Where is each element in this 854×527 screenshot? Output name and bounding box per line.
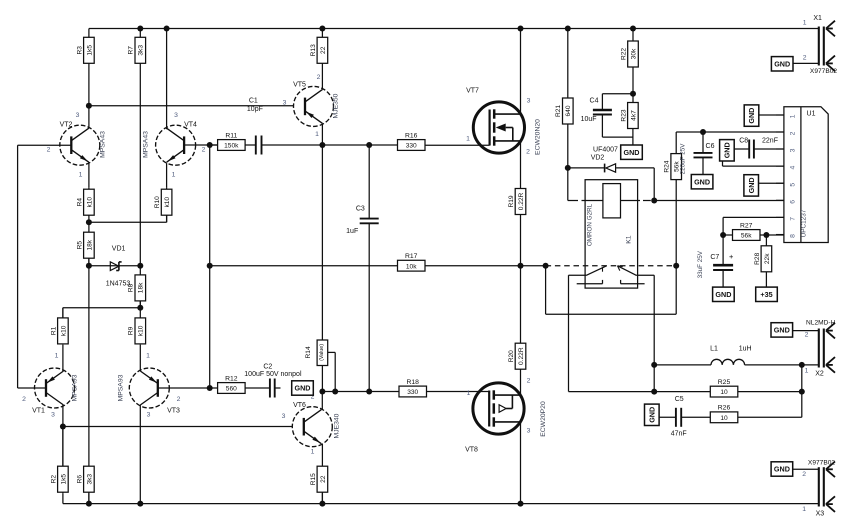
wire R5 drop to VD1	[88, 258, 90, 266]
junction VT1 collector / VT6 base line	[60, 424, 66, 430]
resistor R2	[50, 427, 68, 494]
ground X2 pin2	[771, 323, 793, 337]
capacitor C3	[346, 206, 379, 235]
junction R5 / VD1 anode	[86, 263, 92, 269]
junction VT3 / -rail	[137, 501, 143, 507]
junction R8 / R9 / R1 bias node	[137, 305, 143, 311]
resistor R16	[398, 132, 426, 150]
svg-text:22nF: 22nF	[762, 138, 778, 145]
wire C6 from pin2 line	[702, 132, 704, 153]
wire VT1 collector down	[62, 405, 64, 466]
connector X2 NL2MD-H	[805, 320, 836, 378]
svg-text:VD2: VD2	[591, 154, 605, 161]
wire R6 to rail	[88, 493, 90, 503]
resistor R15	[310, 466, 328, 504]
resistor R28	[754, 246, 772, 272]
wire U1 pin4 to GND	[723, 165, 784, 167]
junction R14 wiper	[332, 389, 338, 395]
svg-text:GND: GND	[715, 290, 731, 299]
U1 pin 7	[776, 216, 784, 218]
wire R28 drop	[765, 235, 767, 246]
svg-text:22: 22	[320, 46, 327, 54]
resistor R24	[664, 150, 682, 180]
wire L1 row	[654, 364, 711, 366]
svg-text:+35: +35	[760, 290, 772, 299]
svg-text:VT8: VT8	[465, 447, 478, 454]
svg-text:640: 640	[565, 105, 572, 116]
svg-text:3k3: 3k3	[86, 474, 93, 485]
svg-text:R22: R22	[620, 48, 627, 60]
svg-text:VT3: VT3	[167, 408, 180, 415]
zener diode VD1 1N4753	[106, 246, 131, 288]
svg-text:3: 3	[283, 100, 287, 107]
svg-text:1k5: 1k5	[86, 45, 93, 56]
ground C7	[713, 287, 735, 301]
svg-text:1uF: 1uF	[346, 228, 358, 235]
wire outer contact loop	[545, 266, 547, 315]
wire relay contact common dashed	[546, 265, 677, 267]
svg-text:R15: R15	[310, 473, 317, 485]
wire R17 row	[210, 265, 398, 267]
wire R2 to rail	[62, 493, 64, 503]
svg-text:30k: 30k	[630, 48, 637, 59]
ground C2	[292, 381, 314, 395]
U1 pin 2	[776, 131, 784, 133]
svg-text:1: 1	[55, 353, 59, 360]
wire R26 row	[659, 416, 676, 418]
svg-text:560: 560	[226, 386, 237, 393]
svg-text:1: 1	[466, 136, 470, 143]
wire C7 drop	[722, 235, 724, 265]
wire VT3 base to feedback node	[158, 387, 210, 389]
svg-text:8: 8	[790, 234, 797, 238]
svg-text:VT1: VT1	[32, 408, 45, 415]
wire R14 to emitter row	[321, 366, 323, 392]
svg-text:R1: R1	[50, 326, 57, 335]
svg-text:1k5: 1k5	[60, 474, 67, 485]
junction R22 / R23 / C4	[630, 91, 636, 97]
U1 pin 4	[776, 165, 784, 167]
junction VD2 cathode / coil line	[651, 198, 657, 204]
U1 pin 1	[776, 114, 784, 116]
junction VT4 collector / +rail	[164, 26, 170, 32]
resistor R5	[76, 222, 94, 265]
wire VT2 collector	[88, 106, 90, 128]
svg-text:MPSA43: MPSA43	[143, 131, 150, 158]
svg-text:VT5: VT5	[293, 82, 306, 89]
svg-text:R24: R24	[664, 160, 671, 172]
resistor R26	[710, 405, 738, 423]
wire R21 column	[567, 29, 569, 99]
capacitor C6	[680, 143, 715, 175]
svg-text:2: 2	[317, 74, 321, 81]
wire VT7 drain to top rail	[520, 29, 522, 114]
junction VT5 emitter node	[319, 142, 325, 148]
svg-text:0.22R: 0.22R	[518, 192, 525, 210]
svg-text:C4: C4	[590, 97, 599, 104]
resistor R3	[76, 29, 94, 106]
resistor R18	[399, 379, 427, 397]
svg-text:R25: R25	[718, 379, 731, 386]
svg-text:1: 1	[803, 20, 807, 27]
svg-text:22: 22	[320, 475, 327, 483]
svg-text:k10: k10	[60, 325, 67, 336]
wire first-stage to VAS line	[89, 105, 294, 107]
MOSFET VT7 ECW20N20	[466, 88, 541, 156]
svg-text:MJE340: MJE340	[334, 413, 341, 438]
ground C5	[645, 404, 660, 425]
wire R8 bottom to node	[139, 301, 141, 308]
svg-text:R28: R28	[754, 252, 761, 264]
capacitor C4 polarized	[581, 97, 612, 123]
svg-text:C3: C3	[356, 206, 365, 213]
wire VT6 emitter to R15	[321, 444, 323, 466]
junction R13 / +rail	[319, 26, 325, 32]
junction R4-R10 emitter node	[86, 219, 92, 225]
wire U1 pin5 to GND	[758, 182, 784, 184]
junction VT7 drain / +rail	[518, 26, 524, 32]
connector X3 X977B02	[802, 459, 835, 517]
wire X3 gnd	[792, 468, 818, 470]
svg-text:2: 2	[803, 55, 807, 62]
ground C4/R23	[621, 145, 643, 159]
diode VD2 UF4007	[591, 146, 618, 172]
wire feedback vertical	[209, 145, 211, 388]
svg-text:GND: GND	[295, 384, 311, 393]
resistor R4	[76, 188, 94, 223]
wire VT3 collector to bottom rail	[139, 405, 141, 504]
wire bias row y307 to R1	[63, 307, 140, 309]
svg-text:X977B02: X977B02	[808, 459, 835, 466]
capacitor C5	[671, 396, 687, 438]
svg-text:R16: R16	[405, 132, 418, 139]
svg-text:5: 5	[790, 183, 797, 187]
resistor R13	[310, 37, 328, 63]
ground X3 pin2	[771, 462, 793, 476]
svg-text:3: 3	[790, 148, 797, 152]
svg-text:U1: U1	[807, 111, 816, 118]
svg-text:10pF: 10pF	[247, 106, 263, 113]
svg-text:R11: R11	[225, 132, 237, 139]
svg-text:ECW20N20: ECW20N20	[535, 119, 542, 155]
svg-text:3: 3	[282, 413, 286, 420]
wire U1 pin7 corner	[723, 216, 784, 218]
svg-text:1: 1	[802, 506, 806, 513]
svg-text:330: 330	[406, 143, 417, 150]
wire VD1 node down to R6	[88, 266, 90, 466]
wire VT4 base to node	[184, 144, 218, 146]
svg-text:C5: C5	[675, 396, 684, 403]
wire bottom -rail	[63, 503, 819, 505]
ground X1 pin2	[771, 57, 793, 71]
svg-text:3: 3	[147, 412, 151, 419]
svg-text:1: 1	[467, 390, 471, 397]
junction R3 / VT2 collector node	[86, 103, 92, 109]
junction contact loop left	[543, 263, 549, 269]
svg-text:C6: C6	[706, 143, 715, 150]
resistor R19	[508, 189, 526, 215]
svg-text:OMRON G2RL: OMRON G2RL	[587, 203, 594, 246]
wire R9 to VT3 emitter	[139, 345, 141, 371]
junction R15 / -rail	[319, 501, 325, 507]
svg-text:10: 10	[720, 389, 728, 396]
svg-text:3: 3	[51, 412, 55, 419]
svg-text:MPSA43: MPSA43	[100, 131, 107, 158]
junction output node / R17	[518, 263, 524, 269]
wire emitter row y222	[89, 221, 167, 223]
svg-text:1: 1	[311, 449, 315, 456]
wire coil to U1 pin6	[621, 200, 641, 202]
wire R24 down to contact node	[675, 180, 677, 266]
svg-text:MPSA93: MPSA93	[72, 374, 79, 401]
svg-text:1N4753: 1N4753	[106, 281, 131, 288]
wire input node vertical	[17, 145, 19, 388]
relay K1 OMRON G2RL	[577, 180, 645, 288]
transistor VT1 MPSA93	[22, 353, 78, 419]
ground U1 pin5	[744, 175, 759, 196]
svg-text:VT4: VT4	[184, 122, 197, 129]
svg-text:(Value): (Value)	[319, 344, 325, 361]
resistor R22	[620, 41, 638, 67]
junction VT4 base / feedback node	[207, 142, 213, 148]
junction relay out / R25 row	[651, 389, 657, 395]
svg-text:GND: GND	[774, 59, 790, 68]
resistor R17	[398, 253, 426, 271]
wire top +rail	[89, 28, 819, 30]
svg-text:R14: R14	[305, 346, 312, 358]
junction R27 left / C7 / pin7	[720, 232, 726, 238]
svg-text:1: 1	[79, 172, 83, 179]
wire C3 branch	[368, 145, 370, 219]
wire VT5 emitter to node	[321, 123, 323, 145]
svg-text:56k: 56k	[741, 233, 752, 240]
svg-text:K1: K1	[626, 235, 633, 244]
inductor L1 1uH	[710, 346, 752, 365]
wire R19 to output node	[520, 215, 522, 266]
junction C3 bottom / R18 row	[366, 389, 372, 395]
ground C6	[691, 175, 713, 189]
svg-text:2: 2	[527, 378, 531, 385]
svg-text:R17: R17	[405, 253, 418, 260]
svg-text:VT7: VT7	[466, 88, 479, 95]
wire U1 pin2 to R24	[676, 131, 784, 133]
resistor R27	[733, 222, 761, 240]
svg-text:C8: C8	[739, 138, 748, 145]
transistor VT5 MJE350	[283, 74, 340, 138]
transistor VT3 MPSA93	[118, 353, 181, 419]
svg-text:3: 3	[174, 112, 178, 119]
svg-text:2: 2	[177, 396, 181, 403]
svg-text:GND: GND	[647, 407, 656, 423]
U1 pin 6	[776, 199, 784, 201]
wire U1 pin3 to C8 to GND	[754, 148, 784, 150]
U1 pin 5	[776, 182, 784, 184]
svg-text:MPSA93: MPSA93	[118, 374, 125, 401]
transistor VT4 MPSA43	[143, 112, 206, 179]
wire R23 bottom to GND	[632, 128, 634, 145]
svg-text:4: 4	[790, 165, 797, 169]
svg-text:R9: R9	[128, 326, 135, 335]
wire R27 pin8 row	[723, 234, 732, 236]
svg-text:47nF: 47nF	[671, 431, 687, 438]
svg-text:R13: R13	[310, 44, 317, 56]
svg-text:NL2MD-H: NL2MD-H	[806, 320, 836, 327]
resistor R8	[128, 266, 146, 308]
svg-text:R7: R7	[128, 46, 135, 55]
resistor R9	[128, 308, 146, 345]
transistor VT2 MPSA43	[47, 112, 107, 179]
svg-text:2: 2	[202, 147, 206, 154]
wire VD2 down to coil line	[653, 168, 655, 201]
resistor R6	[76, 466, 94, 504]
IC U1 UPC1237	[776, 107, 828, 243]
power +35 R28	[756, 287, 778, 301]
svg-text:10: 10	[720, 415, 728, 422]
svg-text:10uF: 10uF	[581, 116, 597, 123]
wire VT4 collector to top rail	[166, 29, 168, 130]
svg-text:7: 7	[790, 217, 797, 221]
svg-text:k10: k10	[138, 325, 145, 336]
capacitor C2	[244, 364, 302, 398]
svg-text:R21: R21	[555, 105, 562, 117]
svg-text:2: 2	[47, 147, 51, 154]
svg-text:GND: GND	[747, 177, 756, 193]
svg-text:2: 2	[22, 396, 26, 403]
svg-text:1: 1	[805, 368, 809, 375]
resistor R10	[154, 188, 172, 223]
junction C3 top node	[366, 142, 372, 148]
wire X2 gnd	[792, 330, 819, 332]
svg-text:R20: R20	[508, 350, 515, 362]
wire VT1 collector row to VT6 base	[63, 426, 292, 428]
wire VT7 source to R19	[520, 141, 522, 188]
svg-text:UF4007: UF4007	[593, 146, 618, 153]
wire X1 gnd	[793, 62, 819, 64]
junction L1 / X2 column	[799, 362, 805, 368]
wire VD2 row	[568, 167, 605, 169]
svg-text:R3: R3	[76, 46, 83, 55]
svg-text:330: 330	[407, 389, 418, 396]
svg-text:R18: R18	[406, 379, 419, 386]
capacitor C7 polarized	[697, 250, 734, 278]
trimmer R14	[305, 340, 328, 366]
svg-text:3: 3	[76, 112, 80, 119]
svg-text:C2: C2	[263, 364, 272, 371]
svg-text:10k: 10k	[406, 263, 417, 270]
svg-text:R6: R6	[76, 475, 83, 484]
svg-text:33uF 25V: 33uF 25V	[697, 250, 704, 278]
wire R13 to VT5	[321, 29, 323, 38]
svg-text:X1: X1	[813, 15, 822, 22]
wire VT6 pin2 up	[321, 392, 323, 410]
wire inner loop left	[568, 275, 570, 391]
wire VD1 row	[89, 265, 140, 267]
junction R7 / +rail	[137, 26, 143, 32]
wire R14 wiper tap	[328, 351, 336, 353]
wire C4 parallel loop	[602, 93, 633, 95]
wire U1 pin1 to GND	[759, 114, 784, 116]
resistor R25	[710, 379, 738, 397]
svg-text:R5: R5	[76, 241, 83, 250]
svg-text:1: 1	[790, 114, 797, 118]
wire node down to R14	[321, 145, 323, 340]
U1 pin 8	[776, 234, 784, 236]
svg-text:2: 2	[802, 471, 806, 478]
svg-text:X2: X2	[815, 371, 824, 378]
junction U1 pin2 / C6	[700, 129, 706, 135]
svg-text:C7: C7	[710, 254, 719, 261]
svg-text:150k: 150k	[224, 143, 239, 150]
svg-text:MJE350: MJE350	[333, 93, 340, 118]
junction feedback node / R12 / VT3 base	[207, 385, 213, 391]
svg-text:3: 3	[527, 428, 531, 435]
svg-text:R2: R2	[50, 475, 57, 484]
svg-text:C1: C1	[249, 98, 258, 105]
wire R20 to VT8	[520, 368, 522, 395]
svg-text:GND: GND	[747, 108, 756, 124]
junction R6 / -rail	[86, 501, 92, 507]
svg-text:VD1: VD1	[112, 246, 126, 253]
junction R27 right / R28 / pin8	[763, 232, 769, 238]
svg-text:UPC1237: UPC1237	[801, 209, 808, 237]
svg-text:2: 2	[805, 332, 809, 339]
svg-text:100uF 50V nonpol: 100uF 50V nonpol	[244, 371, 302, 378]
svg-text:3: 3	[527, 98, 531, 105]
resistor R12	[210, 375, 245, 393]
junction VD1 cathode / R8	[137, 263, 143, 269]
svg-text:VT2: VT2	[60, 122, 73, 129]
junction VT6 collector / R14	[319, 389, 325, 395]
svg-text:R23: R23	[620, 109, 627, 121]
resistor R21	[555, 98, 573, 124]
wire VT8 drain to rail	[520, 422, 522, 504]
ground U1 pin3	[720, 140, 735, 161]
wire R23 top	[632, 94, 634, 103]
capacitor C1	[247, 98, 263, 155]
svg-text:+: +	[729, 252, 734, 261]
svg-text:L1: L1	[710, 346, 718, 353]
svg-text:k10: k10	[86, 197, 93, 208]
svg-text:X3: X3	[816, 511, 825, 518]
junction R25 / zobel column	[799, 389, 805, 395]
svg-text:1: 1	[146, 353, 150, 360]
junction feedback / R17	[207, 263, 213, 269]
connector X1 X977B02	[803, 15, 838, 75]
svg-text:0.22R: 0.22R	[518, 347, 525, 365]
resistor R23	[620, 103, 638, 129]
svg-text:R26: R26	[718, 405, 731, 412]
svg-text:220uF 25V: 220uF 25V	[680, 143, 687, 175]
wire zobel vertical	[801, 365, 803, 417]
capacitor C8	[739, 138, 778, 159]
svg-text:X977B02: X977B02	[810, 68, 837, 75]
svg-text:22k: 22k	[764, 253, 771, 264]
wire R25 row	[654, 391, 710, 393]
junction contact loop right / R24	[673, 263, 679, 269]
wire R21 to relay coil	[567, 168, 569, 201]
svg-text:GND: GND	[774, 326, 790, 335]
wire R1 to VT1 emitter	[62, 345, 64, 371]
svg-text:GND: GND	[624, 148, 640, 157]
resistor R7	[128, 29, 146, 266]
svg-text:1: 1	[315, 131, 319, 138]
wire VAS row y145	[245, 144, 256, 146]
junction R21 / VD2 anode	[565, 165, 571, 171]
svg-text:k10: k10	[164, 197, 171, 208]
svg-text:ECW20P20: ECW20P20	[540, 401, 547, 437]
svg-text:GND: GND	[774, 465, 790, 474]
wire R15 to rail	[321, 493, 323, 503]
